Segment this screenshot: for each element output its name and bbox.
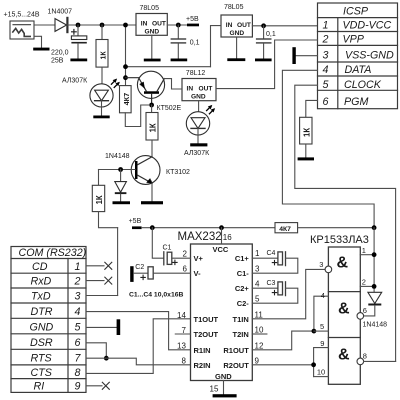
- ground (C 220u): [70, 59, 87, 62]
- LED VD3 AL307K (under 78L12): [186, 112, 209, 135]
- ground (DA1): [144, 59, 161, 62]
- svg-text:3: 3: [75, 291, 81, 303]
- wire LED VD2 to ground: [101, 101, 103, 116]
- svg-text:0,1: 0,1: [190, 39, 200, 46]
- regulator DA2 78L05: [221, 15, 252, 37]
- wire DA2 GND to ground: [236, 37, 238, 58]
- svg-text:1К: 1К: [302, 128, 311, 137]
- svg-text:1N4148: 1N4148: [105, 153, 130, 160]
- svg-text:DTR: DTR: [31, 306, 53, 318]
- svg-text:GND: GND: [230, 30, 245, 37]
- svg-text:VSS-GND: VSS-GND: [345, 50, 394, 62]
- ground (LED VD3): [190, 143, 207, 146]
- terminal bar GND (COM): [117, 319, 121, 335]
- wire R2OUT pin9 to gate DD1.3 inputs: [252, 364, 313, 366]
- svg-text:3: 3: [319, 260, 323, 269]
- svg-text:PGM: PGM: [344, 96, 368, 108]
- svg-text:10: 10: [255, 326, 264, 335]
- wire GND row to terminal: [86, 326, 117, 328]
- wire connector to diode VD1: [34, 24, 55, 26]
- wire TxD to R4 riser: [86, 295, 118, 297]
- node junction pin16: [219, 225, 224, 230]
- svg-text:5: 5: [255, 295, 260, 304]
- wire RI stub: [86, 385, 102, 387]
- svg-text:25В: 25В: [51, 58, 64, 65]
- svg-text:1N4148: 1N4148: [363, 322, 388, 329]
- svg-text:OUT: OUT: [152, 21, 166, 28]
- svg-text:C3: C3: [267, 280, 276, 287]
- resistor R1 1K: [96, 40, 108, 68]
- wire rail drop at x=125.5: [125, 25, 127, 86]
- svg-text:11: 11: [255, 310, 264, 319]
- svg-text:R2OUT: R2OUT: [223, 361, 249, 370]
- wire R5 to DATA node: [298, 227, 375, 229]
- transistor VT1 KT502E: [126, 71, 165, 105]
- svg-text:VPP: VPP: [343, 34, 365, 46]
- svg-text:IN: IN: [187, 86, 194, 93]
- svg-text:VCC: VCC: [213, 245, 229, 254]
- capacitor C 0,1 (second): [257, 26, 271, 59]
- svg-text:АЛ307К: АЛ307К: [62, 78, 88, 85]
- wire R1OUT pin12 to gate DD1.2 inputs: [252, 331, 314, 350]
- wire T1IN pin11 to gate DD1.1 output: [252, 269, 325, 318]
- svg-text:R1OUT: R1OUT: [223, 346, 249, 355]
- wire DATA row to pull-up node: [282, 70, 374, 227]
- svg-text:GND: GND: [191, 93, 206, 100]
- wire CD stub: [86, 265, 104, 267]
- svg-text:8: 8: [182, 357, 187, 366]
- node junction emitter tap: [123, 75, 128, 80]
- svg-text:14: 14: [177, 311, 186, 320]
- svg-text:6: 6: [75, 337, 81, 349]
- svg-text:5: 5: [320, 322, 324, 331]
- wire DSR joins RTS: [86, 343, 106, 358]
- svg-text:1: 1: [323, 20, 329, 32]
- svg-text:78L05: 78L05: [224, 4, 244, 11]
- svg-text:COM (RS232): COM (RS232): [19, 247, 87, 259]
- svg-text:C4: C4: [267, 250, 276, 257]
- svg-text:TxD: TxD: [31, 291, 51, 303]
- svg-text:+15,5...24В: +15,5...24В: [4, 12, 40, 19]
- wire bus (unregulated rail): [126, 66, 211, 68]
- svg-text:DSR: DSR: [30, 337, 53, 349]
- diode VD1 1N4007: [55, 18, 67, 32]
- connector table ICSP: [318, 3, 398, 109]
- svg-text:78L05: 78L05: [140, 5, 160, 12]
- wire R1 to LED VD2: [101, 67, 103, 90]
- node junction rail top: [123, 23, 128, 28]
- svg-text:R2IN: R2IN: [194, 361, 211, 370]
- svg-text:4: 4: [255, 280, 260, 289]
- wire DD1.2 input pin5: [314, 330, 329, 332]
- wire top rail diode to 78L05: [67, 24, 136, 26]
- IC DD1 KR1533LA3 gate column: [328, 247, 360, 384]
- capacitor C4 (pins 1-3): [252, 252, 297, 273]
- wire PGM row to R6: [306, 100, 318, 117]
- resistor R4 1K (base series from TxD): [92, 170, 104, 212]
- svg-text:C2+: C2+: [235, 284, 250, 293]
- svg-text:OUT: OUT: [237, 22, 251, 29]
- IC DD1 MAX232 body: [191, 244, 253, 381]
- ground (VD4): [113, 201, 131, 204]
- ground (VT2 emitter): [141, 201, 163, 204]
- svg-text:GND: GND: [145, 28, 160, 35]
- wire DA1 OUT to +5V terminal: [167, 24, 187, 26]
- wire T2OUT stub pin7: [175, 333, 190, 335]
- svg-text:МАХ232: МАХ232: [178, 231, 222, 243]
- svg-text:IN: IN: [141, 21, 148, 28]
- wire LED VD3 to ground: [197, 128, 199, 143]
- ground (C 0,1 second): [255, 59, 272, 62]
- wire R6 to ground: [305, 144, 307, 157]
- svg-text:GND: GND: [30, 322, 54, 334]
- wire DD1.3 output to CLOCK riser: [364, 360, 396, 362]
- no-connect X on RI: [102, 382, 109, 389]
- inversion bubble DD1.1 output: [325, 266, 332, 273]
- svg-text:220,0: 220,0: [51, 50, 69, 57]
- resistor R3 1K (VT1 base to VT2 collector): [146, 105, 158, 140]
- svg-text:4: 4: [323, 64, 329, 76]
- node junction +5V / C1: [150, 225, 155, 230]
- node junction DSR/RTS: [104, 356, 109, 361]
- svg-text:R1IN: R1IN: [194, 346, 211, 355]
- ground (R6): [298, 157, 314, 160]
- svg-text:ICSP: ICSP: [343, 6, 369, 18]
- svg-text:4: 4: [75, 306, 81, 318]
- node junction pin2: [372, 284, 377, 289]
- wire rail to R1: [101, 25, 103, 40]
- resistor R6 1K (PGM pulldown): [300, 117, 312, 144]
- terminal bar +5V (near MAX232): [132, 226, 142, 229]
- svg-text:&: &: [338, 301, 350, 318]
- svg-text:0,1: 0,1: [266, 31, 276, 38]
- capacitor C 220,0 25V polarized: [71, 25, 86, 59]
- svg-text:5: 5: [75, 322, 81, 334]
- ground (C 0,1 first): [171, 59, 188, 62]
- svg-text:C2-: C2-: [237, 299, 250, 308]
- svg-text:2: 2: [183, 250, 188, 259]
- svg-text:CTS: CTS: [31, 367, 53, 379]
- svg-text:VDD-VCC: VDD-VCC: [343, 20, 392, 32]
- svg-text:C1-: C1-: [237, 269, 250, 278]
- no-connect X on RxD: [105, 277, 112, 284]
- svg-text:7: 7: [75, 353, 82, 365]
- wire DD1.3 input pin9: [314, 348, 329, 377]
- ground (DA2): [227, 58, 245, 61]
- LED VD2 light arrows: [111, 79, 119, 87]
- ground (MAX232 pin15): [213, 394, 237, 397]
- svg-text:C1: C1: [163, 245, 172, 252]
- node junction pins 9-10: [311, 362, 316, 367]
- capacitor C1 10,0x16V: [152, 228, 190, 265]
- svg-text:T2OUT: T2OUT: [194, 330, 219, 339]
- capacitor C2 10,0x16V with free minus bar: [130, 266, 190, 282]
- node junction at C 220u: [76, 23, 81, 28]
- terminal bar +5V (top): [187, 24, 199, 27]
- wire DA3 GND to LED VD3: [198, 101, 200, 112]
- svg-text:9: 9: [255, 356, 260, 365]
- svg-text:13: 13: [177, 342, 186, 351]
- wire bus to DA2 IN: [211, 26, 222, 67]
- wire CLOCK row to gate DD1.3 output: [295, 85, 396, 361]
- transistor VT2 KT3102: [131, 156, 160, 185]
- svg-text:8: 8: [75, 367, 81, 379]
- svg-text:4К7: 4К7: [122, 93, 131, 106]
- svg-text:1К: 1К: [95, 195, 104, 204]
- svg-text:АЛ307К: АЛ307К: [184, 150, 210, 157]
- svg-text:3: 3: [255, 265, 260, 274]
- svg-text:IN: IN: [226, 22, 233, 29]
- ground (connector): [33, 48, 49, 51]
- svg-text:15: 15: [210, 384, 219, 393]
- svg-text:10: 10: [317, 368, 325, 377]
- wire DD1.1 input pin1: [360, 254, 374, 256]
- node junction DATA pull-up: [372, 225, 377, 230]
- svg-text:V+: V+: [194, 254, 204, 263]
- svg-text:C2: C2: [135, 264, 144, 271]
- svg-text:2: 2: [74, 276, 81, 288]
- svg-text:V-: V-: [194, 269, 202, 278]
- wire DD1.2 input pin4: [314, 296, 329, 331]
- svg-text:6: 6: [363, 306, 367, 315]
- svg-text:КР1533ЛА3: КР1533ЛА3: [310, 234, 369, 246]
- svg-text:1: 1: [255, 249, 260, 258]
- connector table COM (RS232): [11, 247, 86, 393]
- svg-text:CLOCK: CLOCK: [344, 79, 382, 91]
- wire VT1 collector to 78L12 IN: [164, 79, 182, 89]
- svg-text:1: 1: [75, 261, 81, 273]
- inversion bubble DD1.2 output: [357, 313, 364, 320]
- wire pin16 from +5V node: [221, 228, 223, 244]
- svg-text:8: 8: [363, 352, 367, 361]
- svg-text:3: 3: [323, 50, 329, 62]
- svg-text:1К: 1К: [149, 123, 158, 132]
- wire VPP row to 78L12 OUT: [216, 40, 318, 89]
- svg-text:1: 1: [362, 246, 366, 255]
- svg-text:RI: RI: [34, 381, 45, 393]
- svg-text:&: &: [337, 255, 349, 272]
- diode VD4 1N4148 (base clamp): [115, 170, 127, 202]
- wire VT2 base: [99, 169, 136, 171]
- node junction bus left end: [123, 64, 128, 69]
- svg-text:T1OUT: T1OUT: [194, 315, 219, 324]
- svg-text:7: 7: [182, 326, 187, 335]
- wire VSS-GND row stub: [296, 55, 318, 57]
- svg-text:12: 12: [255, 342, 264, 351]
- terminal bar VSS-GND: [292, 47, 295, 64]
- svg-text:6: 6: [183, 265, 188, 274]
- inversion bubble DD1.3 output: [357, 358, 364, 365]
- wire DA1 GND pin to ground: [151, 35, 153, 58]
- regulator DA1 78L05: [136, 14, 167, 36]
- svg-text:2: 2: [322, 34, 329, 46]
- wire DTR to MAX232 R1IN: [86, 312, 191, 350]
- svg-text:T2IN: T2IN: [233, 330, 249, 339]
- svg-text:&: &: [338, 347, 350, 364]
- ground (LED VD2): [93, 116, 109, 119]
- svg-text:9: 9: [320, 339, 324, 348]
- svg-text:OUT: OUT: [199, 86, 213, 93]
- svg-text:RxD: RxD: [31, 276, 52, 288]
- wire R3 to VT2 collector: [151, 140, 153, 157]
- wire RxD stub: [86, 280, 104, 282]
- wire DD1.3 input pin10: [314, 376, 329, 378]
- wire connector to ground: [34, 36, 42, 47]
- svg-text:1К: 1К: [101, 51, 108, 60]
- wire VT2 emitter to ground: [151, 183, 153, 201]
- svg-text:T1IN: T1IN: [233, 315, 249, 324]
- wire RTS to MAX232 R2IN: [86, 358, 191, 365]
- svg-text:4К7: 4К7: [279, 226, 291, 233]
- svg-text:RTS: RTS: [31, 353, 53, 365]
- svg-text:+5В: +5В: [129, 218, 142, 225]
- wire R2 bottom to VT1 base node: [125, 105, 149, 127]
- wire pin15 to ground: [223, 381, 225, 395]
- svg-text:78L12: 78L12: [186, 70, 206, 77]
- no-connect X on CD: [105, 262, 112, 269]
- wire DA2 OUT to ICSP VDD-VCC row: [252, 25, 317, 27]
- node junction at R1: [100, 23, 105, 28]
- svg-text:GND: GND: [215, 372, 232, 381]
- node junction VT2 base / diode: [118, 167, 123, 172]
- svg-text:+5В: +5В: [186, 16, 199, 23]
- power connector XS1: [10, 21, 34, 39]
- wire DD1.1 input pin2: [360, 285, 374, 287]
- node junction pin1: [372, 252, 377, 257]
- svg-text:6: 6: [323, 96, 329, 108]
- resistor R5 4K7 (DATA pull-up): [275, 223, 298, 233]
- svg-text:C1+: C1+: [235, 254, 250, 263]
- diode VD5 1N4148 (DATA isolation): [364, 292, 382, 316]
- capacitor C 0,1 (first): [171, 25, 185, 59]
- wire T2IN stub pin10: [252, 333, 267, 335]
- node junction pins 4-5: [312, 329, 317, 334]
- wire TxD riser: [117, 228, 119, 296]
- node junction DA2 OUT / C 0,1 second: [261, 23, 266, 28]
- svg-text:2: 2: [362, 278, 366, 287]
- svg-text:16: 16: [223, 233, 232, 242]
- svg-text:C1...С4 10,0х16В: C1...С4 10,0х16В: [129, 292, 183, 299]
- svg-text:1N4007: 1N4007: [48, 8, 73, 15]
- svg-text:DATA: DATA: [345, 64, 372, 76]
- capacitor C3 (pins 4-5): [252, 282, 297, 303]
- wire R4 bottom to TxD riser: [99, 212, 118, 228]
- wire DATA node to gate DD1.1 inputs: [373, 228, 375, 293]
- node junction VT1 base: [149, 103, 154, 108]
- svg-text:5: 5: [323, 79, 329, 91]
- wire CTS to MAX232 T1OUT: [86, 319, 191, 374]
- svg-text:КТ3102: КТ3102: [166, 169, 190, 176]
- LED VD3 light arrows: [207, 105, 215, 113]
- svg-text:CD: CD: [32, 261, 48, 273]
- resistor R2 4K7: [120, 86, 132, 113]
- wire +5V rail to MAX232 pin16 and R5: [142, 227, 275, 229]
- svg-text:КТ502Е: КТ502Е: [157, 105, 182, 112]
- regulator DA3 78L12: [182, 79, 216, 101]
- svg-text:4: 4: [321, 291, 325, 300]
- node junction DA1 OUT / C 0,1: [176, 23, 181, 28]
- LED VD2 AL307K: [90, 84, 113, 107]
- svg-text:9: 9: [75, 381, 81, 393]
